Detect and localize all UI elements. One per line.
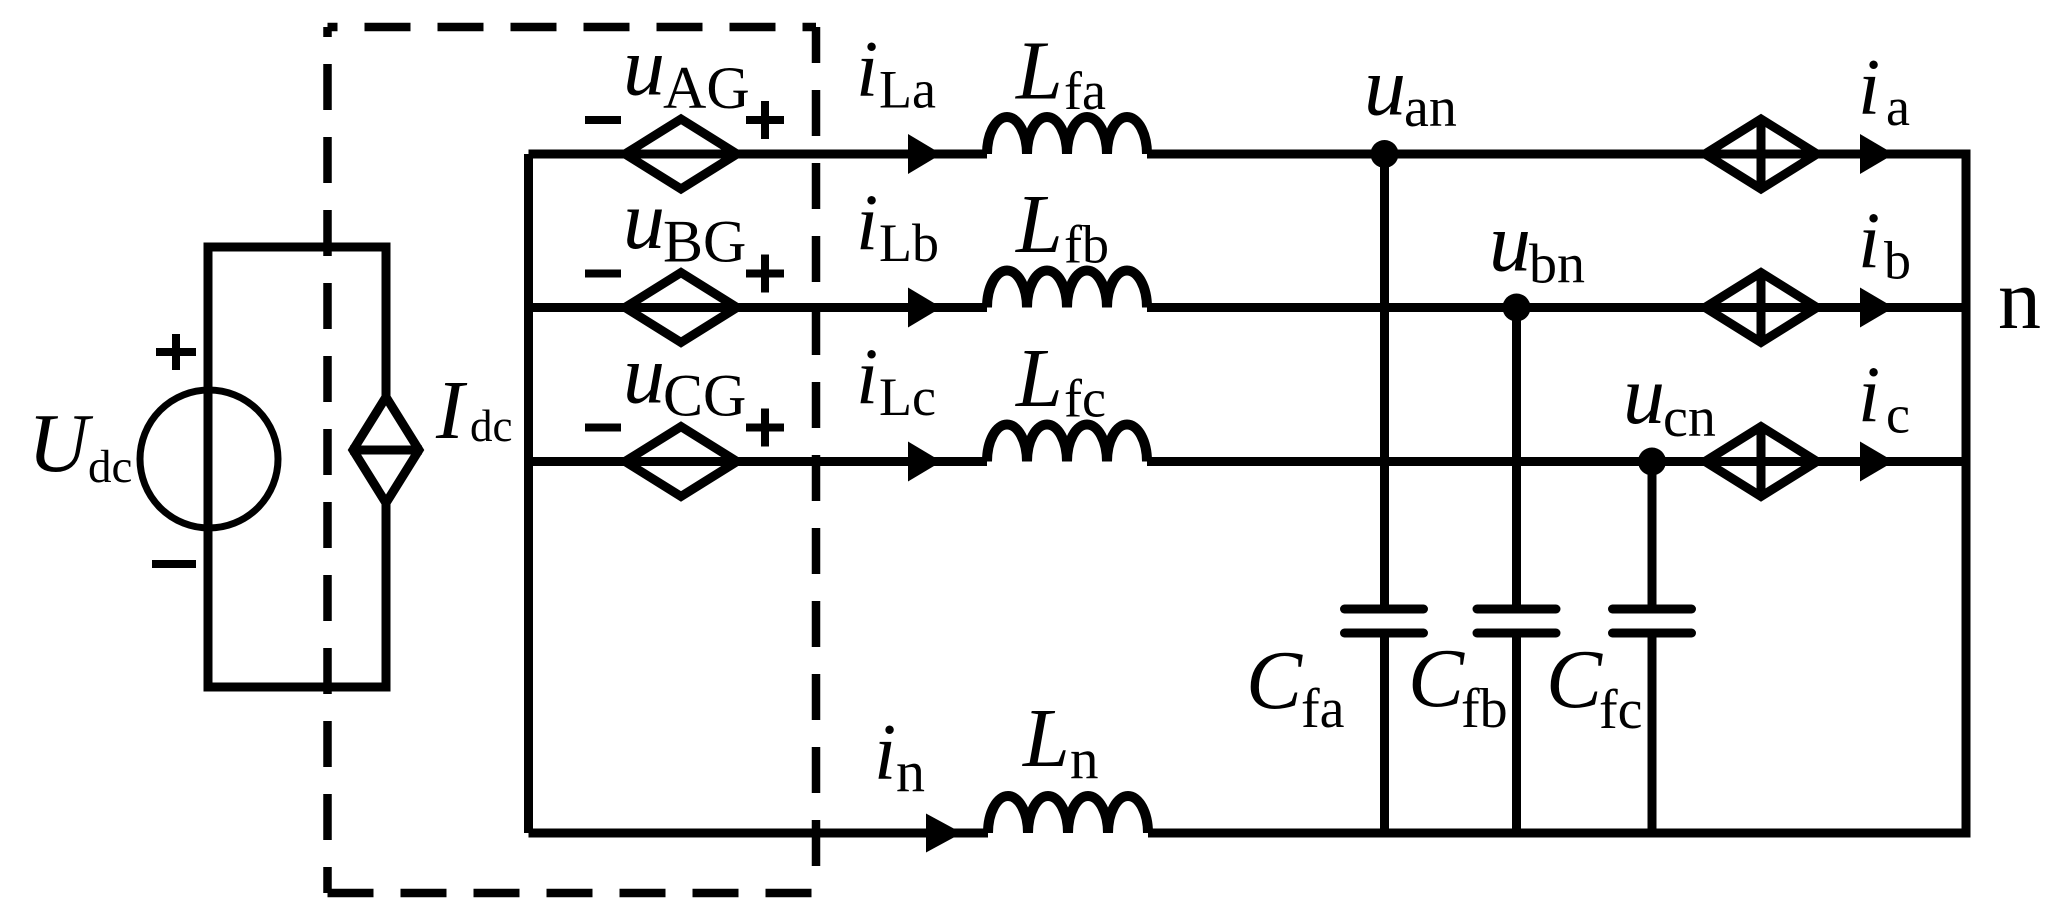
svg-text:Lc: Lc <box>879 367 936 427</box>
minus sign (u_AG) <box>585 116 621 124</box>
svg-text:fb: fb <box>1064 215 1109 275</box>
svg-text:L: L <box>1015 25 1063 118</box>
controlled voltage source u_CG <box>625 427 737 497</box>
plus sign (u_BG) <box>746 255 784 293</box>
node u_an dot <box>1371 140 1399 168</box>
plus sign (u_AG) <box>746 101 784 139</box>
svg-text:Lb: Lb <box>879 213 939 273</box>
phase B wire <box>529 303 1967 312</box>
inductor L_fb <box>987 271 1147 308</box>
svg-text:C: C <box>1246 634 1303 727</box>
svg-text:i: i <box>1858 198 1880 286</box>
capacitor C_fc branch <box>1613 462 1692 834</box>
svg-text:AG: AG <box>663 55 750 121</box>
controlled current source (phase a, right) <box>1705 119 1817 189</box>
node u_cn dot <box>1638 448 1666 476</box>
svg-text:i: i <box>856 334 878 422</box>
svg-text:L: L <box>1022 692 1070 785</box>
arrow i_La <box>908 134 942 174</box>
svg-text:bn: bn <box>1529 234 1585 296</box>
controlled voltage source u_BG <box>625 273 737 343</box>
plus sign (u_CG) <box>746 409 784 447</box>
svg-text:fb: fb <box>1461 678 1508 740</box>
svg-text:c: c <box>1886 385 1910 445</box>
arrow i_b <box>1860 288 1894 328</box>
svg-text:L: L <box>1015 332 1063 425</box>
phase A wire + right rail n + neutral wire <box>529 154 1967 833</box>
minus sign (u_CG) <box>585 424 621 432</box>
capacitor C_fa branch <box>1345 154 1424 833</box>
svg-text:u: u <box>623 329 665 422</box>
svg-text:U: U <box>28 397 94 490</box>
arrow i_n <box>926 814 962 853</box>
svg-text:C: C <box>1546 633 1603 726</box>
svg-text:L: L <box>1015 178 1063 271</box>
svg-text:i: i <box>856 180 878 268</box>
arrow i_c <box>1860 442 1894 482</box>
svg-text:u: u <box>1489 197 1531 290</box>
dashed converter box <box>328 23 817 32</box>
svg-text:BG: BG <box>663 209 746 275</box>
svg-text:a: a <box>1886 77 1910 137</box>
svg-text:n: n <box>896 739 925 804</box>
svg-text:fa: fa <box>1064 61 1106 121</box>
plus sign (U_dc) <box>156 334 196 370</box>
svg-text:i: i <box>1858 44 1880 132</box>
controlled current source I_dc <box>350 397 422 503</box>
svg-text:I: I <box>435 364 468 457</box>
svg-text:cn: cn <box>1663 387 1716 449</box>
svg-text:fc: fc <box>1064 369 1106 429</box>
svg-text:fa: fa <box>1301 678 1345 740</box>
svg-text:u: u <box>623 21 665 114</box>
arrow i_Lc <box>908 442 942 482</box>
svg-text:u: u <box>1623 349 1665 442</box>
svg-text:n: n <box>1998 251 2041 347</box>
svg-text:dc: dc <box>470 401 512 451</box>
left dc bus wire <box>524 154 533 833</box>
capacitor C_fb branch <box>1477 308 1556 834</box>
svg-text:fc: fc <box>1599 679 1643 741</box>
svg-text:La: La <box>879 60 936 120</box>
svg-text:u: u <box>623 174 665 267</box>
arrow i_Lb <box>908 288 942 328</box>
controlled current source (phase c, right) <box>1705 427 1817 497</box>
inductor L_fc <box>987 425 1147 462</box>
svg-text:C: C <box>1408 632 1465 725</box>
dc source loop wire <box>208 247 386 687</box>
svg-text:n: n <box>1070 728 1099 791</box>
svg-text:i: i <box>874 709 896 797</box>
inductor L_n <box>988 796 1148 833</box>
minus sign (U_dc) <box>152 560 196 568</box>
voltage source U_dc <box>140 390 278 528</box>
minus sign (u_BG) <box>585 270 621 278</box>
arrow i_a <box>1860 134 1894 174</box>
phase C wire <box>529 457 1967 466</box>
controlled voltage source u_AG <box>625 119 737 189</box>
svg-text:dc: dc <box>88 441 132 493</box>
node u_bn dot <box>1503 294 1531 322</box>
svg-text:i: i <box>856 26 878 114</box>
svg-text:b: b <box>1884 231 1911 291</box>
svg-text:i: i <box>1858 352 1880 440</box>
svg-text:an: an <box>1404 77 1457 139</box>
svg-text:CG: CG <box>663 363 746 429</box>
inductor L_fa <box>987 117 1147 154</box>
svg-text:u: u <box>1364 41 1406 134</box>
controlled current source (phase b, right) <box>1705 273 1817 343</box>
